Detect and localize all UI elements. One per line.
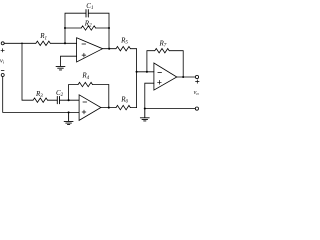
svg-text:vo: vo xyxy=(194,89,200,96)
node U1 output xyxy=(108,48,110,50)
U3 feedback left leg xyxy=(147,51,155,72)
U2 plus glyph xyxy=(82,110,86,114)
node ground U2 junction xyxy=(68,111,70,113)
node feedback resistor left xyxy=(64,27,66,29)
svg-text:R6: R6 xyxy=(120,95,128,104)
node U2 output xyxy=(108,107,110,109)
resistor R3 series branch xyxy=(33,98,47,102)
U3 feedback right leg xyxy=(169,51,183,77)
resistor R4 feedback of U2 xyxy=(78,82,92,86)
U2 minus glyph xyxy=(83,101,87,103)
wire C1 to feedback right rail xyxy=(88,13,109,28)
plus sign output polarity xyxy=(196,80,200,84)
svg-text:vi: vi xyxy=(0,58,5,65)
capacitor C1 xyxy=(86,10,88,17)
node feedback resistor right xyxy=(108,27,110,29)
wire R3 to C2 xyxy=(48,99,58,101)
feedback right rail down to output xyxy=(108,28,110,49)
wire split down to series branch xyxy=(22,43,33,100)
resistor R6 summing input from U2 xyxy=(116,105,130,109)
wire R5 to summing rail xyxy=(130,49,136,108)
U2 output wire xyxy=(101,107,116,109)
wire from input plus terminal xyxy=(4,42,36,44)
wire R6 to summing rail xyxy=(130,107,136,109)
wire to R2 feedback xyxy=(65,27,81,29)
svg-text:R3: R3 xyxy=(35,90,43,99)
U3 minus glyph xyxy=(158,71,162,73)
resistor R5 summing input from U1 xyxy=(116,47,130,51)
bottom rail left from input minus terminal xyxy=(3,77,79,113)
wire summing junction to U3 inverting input xyxy=(137,71,154,73)
input terminal plus xyxy=(1,42,4,45)
input terminal minus xyxy=(1,74,4,77)
node U3 output xyxy=(182,76,184,78)
node U1 inverting input xyxy=(64,42,66,44)
svg-text:R2: R2 xyxy=(84,19,92,28)
node U2 inverting input xyxy=(68,99,70,101)
output terminal minus xyxy=(195,107,198,110)
ground U3 xyxy=(140,109,149,121)
wire C2 to U2 inverting input xyxy=(60,99,80,101)
node summing junction xyxy=(136,71,138,73)
minus sign input polarity xyxy=(1,70,4,72)
resistor R7 feedback of U3 xyxy=(155,49,169,53)
resistor R2 feedback of U1 xyxy=(81,26,95,30)
node U3 feedback tap xyxy=(146,71,148,73)
capacitor C2 xyxy=(57,96,59,103)
svg-text:R1: R1 xyxy=(39,32,47,41)
U1 plus glyph xyxy=(82,53,86,57)
U3 output wire xyxy=(177,76,196,78)
ground U2 xyxy=(64,112,73,124)
wire R2 to right rail xyxy=(96,27,109,29)
svg-text:R4: R4 xyxy=(81,72,89,81)
wire R1 to U1 inverting input xyxy=(50,42,76,44)
node input split xyxy=(21,43,23,45)
svg-text:C1: C1 xyxy=(86,2,93,11)
U1 output wire xyxy=(103,48,116,50)
node ground U3 junction xyxy=(144,107,146,109)
op-amp U1 xyxy=(77,38,103,62)
ground U1 xyxy=(56,66,65,70)
output terminal plus xyxy=(195,75,198,78)
U2 feedback left leg xyxy=(69,85,79,101)
svg-text:C2: C2 xyxy=(56,89,64,98)
svg-text:R7: R7 xyxy=(159,40,167,49)
U2 feedback right leg xyxy=(93,85,109,108)
U1 minus glyph xyxy=(82,43,86,45)
op-amp U3 xyxy=(154,63,177,90)
bottom rail right xyxy=(145,108,196,110)
U3 plus glyph xyxy=(158,80,162,84)
U1 noninverting input wire to ground xyxy=(61,56,77,66)
plus sign input polarity xyxy=(1,49,4,52)
svg-text:R5: R5 xyxy=(120,36,128,45)
resistor R1 input xyxy=(36,41,50,45)
U3 noninverting input wire down xyxy=(145,83,154,108)
op-amp U2 xyxy=(79,95,101,121)
feedback left rail U1 xyxy=(65,13,86,43)
